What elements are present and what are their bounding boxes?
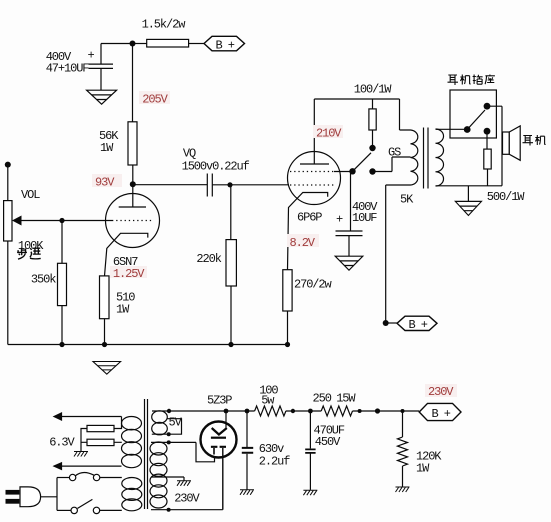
svg-text:VOL: VOL <box>21 188 40 202</box>
svg-text:10UF: 10UF <box>352 211 377 225</box>
svg-text:6P6P: 6P6P <box>297 211 322 225</box>
svg-text:450V: 450V <box>315 435 341 449</box>
svg-text:GS: GS <box>388 146 401 160</box>
svg-text:B +: B + <box>409 318 428 332</box>
svg-text:230V: 230V <box>174 492 200 506</box>
svg-text:2.2uf: 2.2uf <box>259 454 290 468</box>
svg-text:1W: 1W <box>100 141 114 155</box>
svg-text:1500v0.22uf: 1500v0.22uf <box>182 159 250 173</box>
svg-text:8.2V: 8.2V <box>290 236 316 250</box>
svg-text:1W: 1W <box>416 462 430 476</box>
svg-text:230V: 230V <box>428 385 454 399</box>
svg-text:5K: 5K <box>400 193 414 207</box>
svg-text:250: 250 <box>313 392 332 406</box>
svg-text:350k: 350k <box>31 273 56 287</box>
svg-text:205V: 205V <box>142 93 168 107</box>
svg-text:5w: 5w <box>261 394 275 408</box>
svg-text:15W: 15W <box>336 392 356 406</box>
svg-text:+: + <box>88 49 95 63</box>
svg-text:B +: B + <box>432 407 451 421</box>
svg-text:+: + <box>336 213 343 227</box>
svg-text:93V: 93V <box>95 176 115 190</box>
svg-text:270/2w: 270/2w <box>294 278 333 292</box>
svg-text:5V: 5V <box>169 416 183 430</box>
svg-text:1.25V: 1.25V <box>113 267 145 281</box>
svg-text:47+10UF: 47+10UF <box>46 62 90 76</box>
svg-text:500/1W: 500/1W <box>487 190 526 204</box>
svg-text:1.5k/2w: 1.5k/2w <box>142 17 187 31</box>
svg-text:1W: 1W <box>116 303 130 317</box>
svg-text:100/1W: 100/1W <box>354 83 393 97</box>
svg-text:6.3V: 6.3V <box>49 436 75 450</box>
svg-text:210V: 210V <box>316 127 342 141</box>
svg-text:220k: 220k <box>196 252 221 266</box>
svg-text:5Z3P: 5Z3P <box>207 394 232 408</box>
svg-text:B +: B + <box>216 38 235 52</box>
